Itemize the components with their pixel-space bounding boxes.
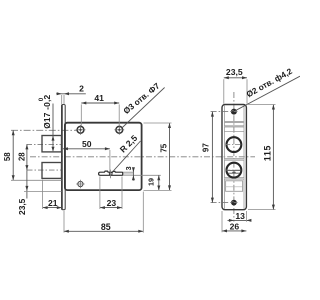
svg-text:3: 3 [124,166,133,170]
svg-text:23: 23 [107,198,117,208]
svg-text:2: 2 [79,84,84,94]
svg-text:23,5: 23,5 [226,67,243,77]
svg-text:58: 58 [3,152,12,161]
svg-text:75: 75 [159,143,168,152]
svg-text:19: 19 [146,178,155,186]
svg-text:41: 41 [94,93,104,103]
svg-text:13: 13 [235,211,245,221]
svg-text:50: 50 [82,139,92,149]
svg-text:85: 85 [101,222,111,232]
svg-text:26: 26 [230,222,240,232]
svg-text:23,5: 23,5 [17,198,27,215]
svg-text:0: 0 [38,97,45,101]
svg-text:97: 97 [201,143,210,152]
svg-text:115: 115 [262,145,272,161]
svg-text:28: 28 [18,152,27,161]
svg-text:21: 21 [48,198,58,208]
